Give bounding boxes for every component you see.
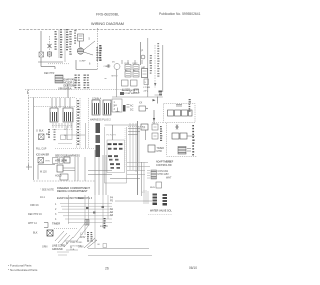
label block lower relay text	[122, 87, 151, 95]
wire label column BLK	[55, 31, 58, 50]
svg-text:26: 26	[105, 267, 109, 271]
svg-text:* Non-Illustrated Parts: * Non-Illustrated Parts	[8, 268, 38, 272]
svg-text:HOLD: HOLD	[55, 175, 62, 178]
control board edge connector	[112, 92, 130, 112]
svg-text:RUN: RUN	[150, 187, 155, 189]
label small right col	[166, 161, 172, 180]
svg-text:P1 P2 P3: P1 P2 P3	[107, 135, 117, 137]
wire ladder to right	[127, 163, 150, 175]
label M1	[40, 171, 47, 174]
wire horizontal compressor bottom	[76, 60, 97, 70]
svg-text:PWR CORD: PWR CORD	[70, 242, 83, 244]
svg-text:REFRIG COMPARTMENT: REFRIG COMPARTMENT	[57, 189, 88, 193]
wire dotted freezer door top	[28, 97, 75, 99]
start relay SR1	[78, 34, 84, 41]
wire vertical from fan motor	[105, 70, 117, 98]
svg-text:MTR 2: MTR 2	[112, 76, 119, 78]
label water fill	[36, 148, 47, 151]
shutoff arm switch	[64, 157, 70, 163]
wire horizontal to right section	[112, 97, 163, 104]
wire vertical below cold control	[145, 130, 147, 140]
icemaker label cols	[48, 129, 56, 140]
wire horizontal under box	[110, 178, 140, 180]
label text under ladder	[100, 225, 108, 228]
cold control CC1	[141, 124, 148, 130]
svg-text:DEF HTR 16: DEF HTR 16	[28, 213, 42, 216]
terminal strip TS2	[147, 170, 157, 179]
run capacitor C2	[150, 182, 162, 189]
water valve lead wires	[142, 190, 149, 204]
svg-text:FREEZER COMPARTMENT: FREEZER COMPARTMENT	[57, 186, 90, 190]
wire dashed center divider	[97, 28, 99, 70]
svg-text:M 120: M 120	[40, 171, 47, 174]
water valve coil column 1	[153, 194, 158, 206]
label left signal rows	[28, 196, 45, 235]
svg-text:Publication No. 5995502641: Publication No. 5995502641	[159, 12, 201, 16]
label tiny col freezer	[64, 126, 67, 140]
svg-text:10-1: 10-1	[40, 196, 45, 199]
label ice maker row	[36, 154, 49, 157]
dispenser dashed box	[152, 95, 195, 123]
label line cord rows	[70, 242, 83, 251]
connector J4	[103, 100, 111, 115]
label neutral rotated	[104, 218, 106, 228]
wire dashed right	[154, 43, 160, 88]
label pin numbers column	[114, 101, 116, 111]
svg-text:G: G	[36, 130, 38, 133]
label rotated lamp	[160, 126, 162, 141]
wire fan to thermostat	[128, 129, 140, 135]
footer functional parts note	[8, 264, 38, 272]
wire ladder bottom left	[58, 203, 112, 222]
splice block	[85, 220, 89, 226]
wire dashed sense line	[49, 36, 51, 58]
wire dotted dispenser top	[34, 106, 75, 108]
footer page number 26	[105, 267, 109, 271]
label column compressor pins	[96, 45, 101, 61]
freezer lamp L2	[152, 133, 158, 139]
wire long bottom line 2	[88, 255, 152, 257]
bracket connector	[44, 223, 48, 228]
wire dotted mid divider	[55, 148, 95, 150]
control housing left edge	[105, 125, 127, 183]
freezer lamp L1	[152, 124, 158, 130]
wire dashed cabinet left edge	[28, 90, 30, 167]
svg-text:WATER VALVE SOL: WATER VALVE SOL	[150, 210, 172, 213]
icemaker comb connector	[52, 123, 73, 130]
svg-text:ORN 16: ORN 16	[30, 204, 39, 207]
wire vertical L1 feed	[40, 31, 42, 52]
wire harness label column	[65, 29, 72, 62]
label bits right	[95, 240, 107, 248]
wire vertical risers mid-left	[75, 157, 85, 181]
wire im internal	[38, 165, 55, 180]
label XX contacts	[139, 102, 148, 112]
wire diagonal to run winding	[84, 41, 96, 55]
icemaker inner boxes row2	[53, 158, 64, 164]
compressor run capacitor label	[74, 30, 76, 44]
label rotated housing pins	[107, 140, 125, 173]
mullion heater coil	[178, 147, 191, 155]
icemaker mold heater	[39, 134, 45, 140]
label rotated harness wires	[77, 100, 79, 145]
defrost timer DT	[148, 145, 164, 153]
dispenser solenoid box	[131, 80, 138, 86]
pressure switch P	[141, 42, 146, 65]
wire vertical below DT1	[40, 58, 42, 67]
svg-text:WIRING DIAGRAM: WIRING DIAGRAM	[91, 22, 124, 26]
wire vertical junction	[67, 83, 69, 98]
wire horizontal bus	[38, 61, 63, 63]
svg-text:HTR: HTR	[46, 161, 51, 163]
label tb dark block	[52, 245, 65, 251]
label tb left	[42, 246, 48, 249]
wire vertical with arrow	[153, 110, 155, 124]
wire horizontal pair to control	[88, 171, 112, 175]
svg-text:MTR: MTR	[157, 150, 162, 153]
header publication number	[159, 12, 201, 16]
svg-text:DC: DC	[130, 109, 134, 112]
label block evaporator	[58, 79, 78, 91]
wire vertical pair mid	[142, 162, 145, 196]
wire long bottom line 1	[88, 248, 149, 250]
svg-text:LT SW: LT SW	[144, 87, 151, 89]
terminal strip TB1	[55, 75, 63, 83]
svg-text:AC: AC	[130, 105, 134, 108]
wire dotted branch	[48, 63, 70, 65]
water valve coil column 2	[163, 194, 168, 206]
svg-text:GRN: GRN	[58, 88, 64, 91]
wire dashed icemaker bottom	[34, 180, 96, 182]
compressor motor COMP	[77, 48, 86, 63]
lamp symbol	[175, 125, 179, 130]
wire vertical relay to compressor	[79, 41, 81, 47]
wire top dashed rule	[19, 29, 163, 31]
connector J2	[63, 108, 73, 122]
svg-text:FRS-6B200BL: FRS-6B200BL	[96, 13, 119, 17]
relay bank labels row	[125, 63, 146, 72]
svg-text:FILL CUP: FILL CUP	[36, 148, 47, 151]
label tb right bits	[64, 241, 78, 250]
svg-text:TIMER: TIMER	[52, 222, 60, 226]
dispenser switch row	[168, 110, 193, 116]
svg-text:BLK: BLK	[39, 130, 44, 133]
overload protector OL	[48, 52, 52, 56]
label cluster mid right	[156, 161, 174, 177]
marks bottom cluster	[57, 252, 69, 255]
wire bundle vertical	[125, 123, 139, 172]
footer date 06/10	[189, 266, 197, 270]
svg-text:N: N	[130, 91, 132, 94]
label door harness row	[55, 155, 80, 158]
door switch DS1	[172, 133, 179, 139]
svg-text:COMP: COMP	[79, 61, 86, 63]
svg-text:CND: CND	[104, 66, 109, 68]
svg-text:IM: IM	[46, 133, 49, 136]
timer contact X3	[47, 230, 53, 236]
svg-text:ICE MAKER: ICE MAKER	[36, 154, 49, 157]
svg-text:BLK: BLK	[33, 232, 38, 235]
label left of lines	[80, 232, 93, 242]
fresh food dashed box	[167, 123, 197, 157]
relay K2	[125, 72, 131, 78]
label rotated dispenser	[189, 99, 191, 112]
title WIRING DIAGRAM	[91, 22, 124, 26]
label below connectors	[90, 119, 111, 122]
svg-text:06/10: 06/10	[189, 266, 197, 270]
terminal dash rows	[108, 143, 123, 169]
label defrost heater	[44, 72, 55, 75]
wire diagonals line cord	[73, 222, 88, 242]
label left col rows	[110, 197, 114, 218]
label ladder row tags	[55, 203, 57, 221]
label dark row2	[55, 160, 68, 163]
wire riser bundle right of icemaker	[95, 150, 106, 195]
svg-text:SW 9 A: SW 9 A	[64, 88, 72, 91]
auger motor box	[122, 80, 131, 92]
heater element sym	[176, 105, 182, 107]
label freezer compartment text	[57, 186, 93, 200]
run capacitor C1	[142, 69, 148, 78]
wire horizontal step	[41, 67, 55, 70]
control housing top edge	[105, 124, 138, 126]
svg-text:GRN: GRN	[42, 246, 48, 249]
connector J3	[92, 98, 102, 116]
defrost timer label dark	[52, 222, 60, 226]
label right of thermostat	[46, 161, 51, 163]
thermostat contact X	[48, 44, 52, 48]
switch S1	[144, 79, 149, 85]
wire horizontal valve	[115, 200, 152, 202]
wire dashed harness edge	[77, 98, 81, 148]
svg-text:115V 60HZ: 115V 60HZ	[70, 246, 82, 248]
relay K4	[133, 72, 139, 78]
svg-text:HARNESS PLUG 2: HARNESS PLUG 2	[90, 119, 111, 122]
label light row in housing	[107, 135, 117, 137]
wire vertical with label	[59, 29, 63, 58]
label column mid	[130, 105, 134, 112]
svg-text:GD: GD	[97, 244, 101, 246]
junction cross mark	[26, 164, 32, 170]
condenser fan motor M1	[104, 62, 121, 78]
svg-text:TH: TH	[142, 127, 145, 130]
relay K1	[125, 65, 131, 71]
node 6	[89, 63, 91, 66]
icemaker label G	[36, 130, 49, 137]
svg-text:⌜ SEE NOTE: ⌜ SEE NOTE	[40, 189, 54, 192]
wire vertical main right	[147, 38, 149, 97]
wire dotted top right shelf	[128, 126, 146, 128]
junction dots ladder	[86, 206, 104, 214]
wire diag pair lower	[84, 238, 97, 248]
wire vertical far right edge	[162, 45, 164, 92]
wire diag fan terminal board	[55, 231, 73, 247]
svg-text:FAN: FAN	[166, 161, 171, 164]
wire dotted tb top	[54, 228, 78, 230]
control housing right edge	[137, 121, 139, 195]
svg-text:115V: 115V	[80, 236, 86, 239]
label column right harness	[150, 55, 152, 74]
wire stub ticks	[122, 60, 150, 64]
label grn bottom	[78, 246, 84, 249]
icemaker thermostat X2	[38, 158, 44, 164]
wire box outline mid	[72, 123, 86, 148]
wire verticals crossing ladder	[69, 195, 109, 248]
label under icemaker	[40, 189, 54, 192]
connector J1	[50, 108, 58, 122]
svg-text:N: N	[66, 242, 68, 245]
wire dotted cabinet top edge	[25, 90, 122, 95]
im motor box	[57, 165, 75, 172]
svg-text:15 A: 15 A	[70, 248, 75, 251]
header model number	[96, 13, 119, 17]
svg-text:WHT 14: WHT 14	[28, 222, 37, 225]
switch S2 marks	[159, 91, 163, 96]
icemaker aux boxes	[58, 135, 72, 144]
svg-text:CONTROL BD: CONTROL BD	[156, 164, 172, 167]
svg-text:GROUND: GROUND	[52, 248, 63, 251]
node 5	[89, 38, 91, 41]
defrost thermostat DT1	[39, 52, 44, 57]
label column wires right	[84, 75, 90, 89]
svg-text:XX: XX	[139, 102, 143, 105]
label dark row water	[148, 210, 172, 215]
wire drop leads to connector A	[52, 98, 70, 108]
relay K3	[133, 65, 139, 71]
svg-text:24 V: 24 V	[144, 91, 149, 93]
wire dashed harness edge 2	[88, 98, 90, 148]
svg-text:SEE NOTE 3: SEE NOTE 3	[78, 197, 93, 200]
label holdsw	[55, 174, 68, 180]
svg-text:WHT: WHT	[166, 177, 172, 180]
wire freezer door left edge	[33, 98, 35, 181]
svg-text:DEF HTR: DEF HTR	[44, 72, 55, 75]
label rotated left box edge	[96, 123, 101, 157]
label column wires left	[75, 75, 81, 89]
label small top boxes	[130, 89, 139, 94]
door switch DS2	[180, 133, 195, 139]
